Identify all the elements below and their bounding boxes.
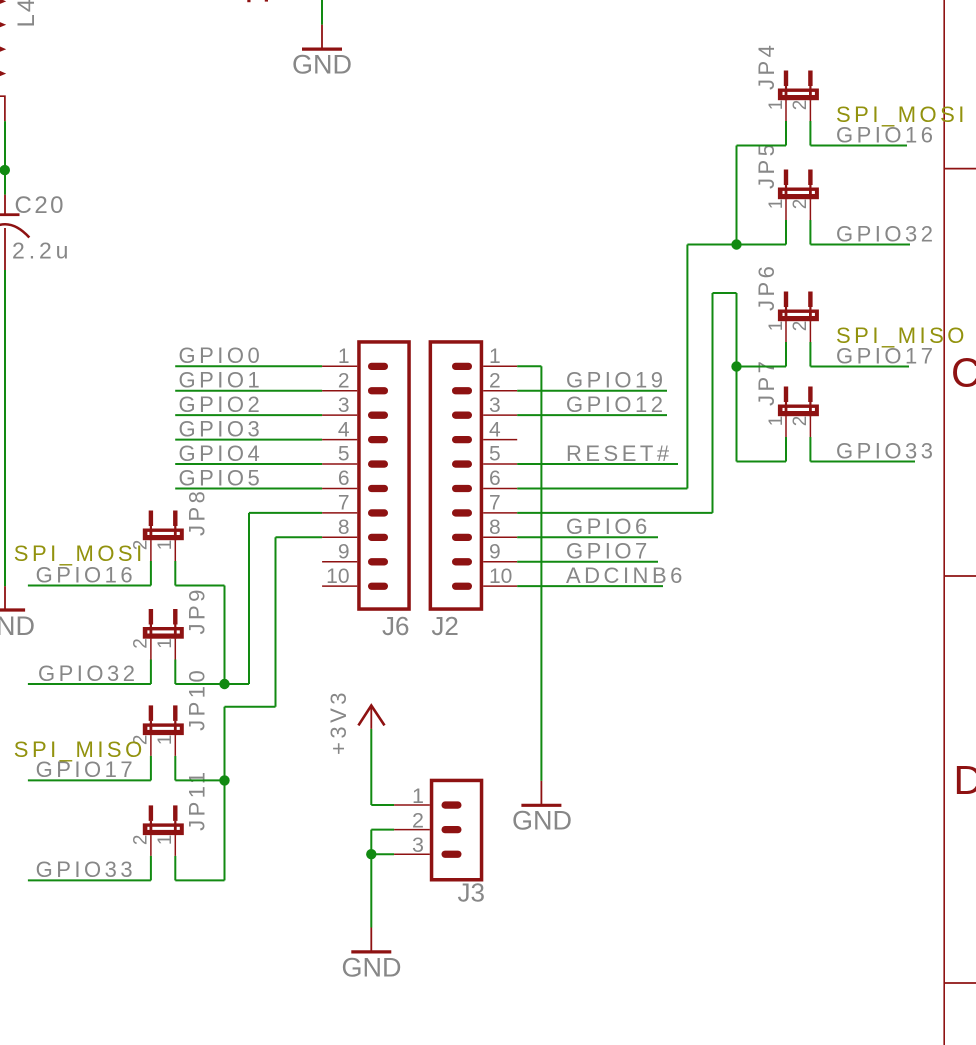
svg-text:GPIO2: GPIO2 bbox=[179, 392, 264, 417]
svg-text:1: 1 bbox=[766, 199, 787, 210]
svg-text:J2: J2 bbox=[431, 611, 458, 641]
svg-text:2: 2 bbox=[790, 416, 811, 427]
svg-text:1: 1 bbox=[489, 345, 501, 368]
svg-text:1: 1 bbox=[338, 345, 350, 368]
svg-text:1: 1 bbox=[155, 735, 176, 746]
svg-text:JP5: JP5 bbox=[754, 141, 779, 189]
svg-text:10: 10 bbox=[326, 565, 349, 588]
svg-text:GND: GND bbox=[342, 952, 402, 982]
svg-text:+3V3: +3V3 bbox=[326, 689, 351, 755]
svg-text:2.2u: 2.2u bbox=[12, 238, 72, 264]
svg-text:6: 6 bbox=[489, 467, 501, 490]
svg-text:J6: J6 bbox=[382, 611, 409, 641]
svg-text:1: 1 bbox=[155, 638, 176, 649]
svg-text:JP10: JP10 bbox=[185, 667, 210, 731]
svg-text:2: 2 bbox=[131, 835, 152, 846]
svg-text:GPIO6: GPIO6 bbox=[566, 514, 651, 539]
svg-text:6: 6 bbox=[338, 467, 350, 490]
svg-text:3: 3 bbox=[412, 833, 424, 857]
svg-text:GPIO33: GPIO33 bbox=[836, 438, 936, 463]
svg-text:JP7: JP7 bbox=[754, 358, 779, 406]
svg-text:7: 7 bbox=[338, 492, 350, 515]
svg-text:4: 4 bbox=[489, 418, 501, 441]
svg-text:1: 1 bbox=[412, 784, 424, 808]
svg-text:D: D bbox=[954, 757, 976, 803]
svg-text:5: 5 bbox=[489, 443, 501, 466]
svg-text:7: 7 bbox=[489, 492, 501, 515]
svg-text:2: 2 bbox=[489, 369, 501, 392]
svg-text:3: 3 bbox=[489, 394, 501, 417]
svg-text:10: 10 bbox=[489, 565, 512, 588]
svg-text:GPIO33: GPIO33 bbox=[36, 857, 136, 882]
svg-text:8: 8 bbox=[338, 516, 350, 539]
svg-text:JP6: JP6 bbox=[754, 263, 779, 311]
svg-text:9: 9 bbox=[489, 540, 501, 563]
svg-text:C: C bbox=[951, 350, 976, 396]
svg-text:C20: C20 bbox=[15, 192, 67, 219]
svg-text:JP8: JP8 bbox=[185, 488, 210, 536]
svg-text:2: 2 bbox=[412, 809, 424, 833]
svg-text:GPIO16: GPIO16 bbox=[836, 122, 936, 147]
svg-text:1: 1 bbox=[155, 835, 176, 846]
svg-text:2: 2 bbox=[131, 638, 152, 649]
svg-text:J3: J3 bbox=[458, 878, 485, 908]
svg-text:GND: GND bbox=[0, 611, 35, 641]
svg-text:GND: GND bbox=[292, 50, 352, 80]
svg-text:GPIO5: GPIO5 bbox=[179, 465, 264, 490]
svg-text:2: 2 bbox=[790, 321, 811, 332]
svg-text:GPIO7: GPIO7 bbox=[566, 539, 651, 564]
svg-text:9: 9 bbox=[338, 540, 350, 563]
svg-text:GPIO17: GPIO17 bbox=[836, 343, 936, 368]
svg-text:GPIO32: GPIO32 bbox=[38, 661, 138, 686]
svg-text:5: 5 bbox=[338, 443, 350, 466]
svg-text:GPIO0: GPIO0 bbox=[179, 343, 264, 368]
svg-text:GPIO19: GPIO19 bbox=[566, 368, 666, 393]
svg-text:GND: GND bbox=[512, 806, 572, 836]
svg-text:2: 2 bbox=[790, 100, 811, 111]
svg-text:L4: L4 bbox=[13, 0, 40, 28]
svg-text:1: 1 bbox=[155, 540, 176, 551]
svg-text:GPIO3: GPIO3 bbox=[179, 416, 264, 441]
svg-text:1: 1 bbox=[766, 100, 787, 111]
svg-text:GPIO1: GPIO1 bbox=[179, 368, 264, 393]
svg-text:JP9: JP9 bbox=[185, 586, 210, 634]
svg-text:JP4: JP4 bbox=[754, 42, 779, 90]
svg-text:3: 3 bbox=[338, 394, 350, 417]
svg-text:GPIO12: GPIO12 bbox=[566, 392, 666, 417]
svg-text:2: 2 bbox=[338, 369, 350, 392]
svg-text:1: 1 bbox=[766, 321, 787, 332]
svg-text:GPIO17: GPIO17 bbox=[36, 757, 136, 782]
svg-text:GPIO16: GPIO16 bbox=[36, 562, 136, 587]
svg-text:GPIO32: GPIO32 bbox=[836, 221, 936, 246]
svg-text:4: 4 bbox=[338, 418, 350, 441]
svg-text:1: 1 bbox=[766, 416, 787, 427]
svg-text:2: 2 bbox=[790, 199, 811, 210]
svg-text:8: 8 bbox=[489, 516, 501, 539]
svg-text:ADCINB6: ADCINB6 bbox=[566, 563, 686, 588]
svg-text:GPIO4: GPIO4 bbox=[179, 441, 264, 466]
svg-text:JP11: JP11 bbox=[185, 768, 210, 831]
svg-text:RESET#: RESET# bbox=[566, 441, 673, 466]
